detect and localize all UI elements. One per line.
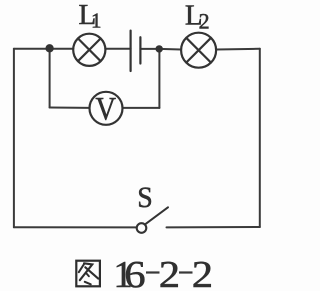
svg-text:6: 6 — [124, 253, 145, 291]
node B junction dot — [156, 45, 163, 52]
wire right rail — [259, 49, 261, 227]
wire bottom-left segment — [14, 226, 136, 228]
wire L1 to battery — [105, 48, 130, 50]
wire bottom-right segment — [167, 226, 260, 228]
label L1 — [79, 0, 102, 33]
wire top-left segment — [14, 48, 73, 50]
label L2 — [185, 0, 210, 34]
caption character 图 — [76, 261, 100, 287]
wire voltmeter branch right riser — [158, 49, 160, 108]
lamp L1 — [73, 34, 105, 66]
svg-text:2: 2 — [192, 253, 213, 291]
battery B1 — [131, 31, 141, 71]
wire left rail — [13, 49, 15, 227]
wire node B to L2 — [159, 48, 181, 51]
node A junction dot — [45, 44, 53, 52]
svg-text:1: 1 — [91, 9, 102, 33]
svg-text:S: S — [137, 181, 153, 214]
lamp L2 — [181, 33, 216, 68]
svg-text:2: 2 — [199, 9, 210, 34]
caption text 16-2-2 — [113, 253, 213, 291]
wire voltmeter branch left drop — [49, 49, 51, 108]
switch S — [137, 207, 168, 233]
wire L2 to right rail — [216, 48, 260, 51]
voltmeter V — [90, 89, 123, 127]
wire voltmeter branch left horizontal — [50, 107, 90, 109]
wire battery to node B — [140, 48, 159, 50]
wire voltmeter branch right horizontal — [123, 107, 160, 109]
svg-text:V: V — [95, 89, 116, 127]
svg-text:2: 2 — [159, 253, 180, 291]
